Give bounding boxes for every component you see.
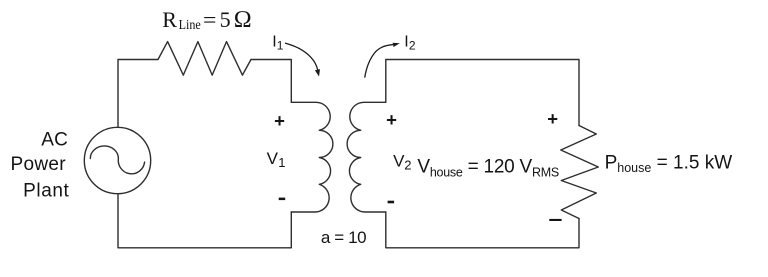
current arrow I1 head [315,69,320,76]
svg-text:Ω: Ω [234,7,252,33]
wire: secondary top [386,60,579,126]
svg-text:5: 5 [220,7,231,32]
svg-text:Vhouse = 120 VRMS: Vhouse = 120 VRMS [417,157,559,180]
svg-text:V: V [393,152,405,171]
svg-text:V: V [267,149,279,168]
svg-text:R: R [162,7,177,32]
svg-text:Power: Power [11,154,67,175]
svg-text:Phouse = 1.5 kW: Phouse = 1.5 kW [605,152,733,175]
wire: primary top left segment [118,60,158,128]
wire: primary left bottom + bottom wire [118,194,291,248]
wire: top wire from resistor to transformer primary [251,60,291,103]
svg-text:1: 1 [277,38,284,52]
polarity minus V2 [388,201,395,204]
svg-text:2: 2 [409,39,416,53]
resistor Phouse zigzag [561,126,599,219]
svg-text:+: + [547,108,558,129]
current arrow I2 curve [365,45,393,77]
svg-text:AC: AC [41,130,68,151]
svg-text:a = 10: a = 10 [321,228,366,247]
current arrow I1 curve [286,43,318,70]
resistor RLine zigzag [158,42,251,76]
svg-text:=: = [203,7,216,32]
AC source sine wave [90,146,144,174]
svg-text:2: 2 [404,158,411,173]
svg-text:1: 1 [278,155,285,170]
svg-text:Line: Line [179,18,201,33]
polarity minus house [549,219,561,221]
AC source circle [84,127,150,193]
transformer T1 primary winding [291,102,333,212]
svg-text:Plant: Plant [23,181,69,202]
polarity minus V1 [279,198,286,201]
current arrow I2 head [393,43,400,47]
wire: secondary bottom [386,212,579,248]
svg-text:+: + [386,109,397,130]
svg-text:+: + [274,110,285,131]
transformer T1 secondary winding [347,102,386,212]
